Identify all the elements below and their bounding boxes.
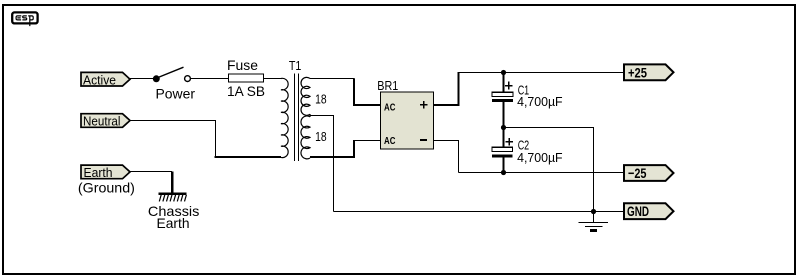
BR1 body [381,92,434,149]
wire -25 rail [459,172,625,174]
junction dot GND rail [591,209,596,214]
junction dot +25 rail / C1 [501,70,506,75]
switch throw contact [185,76,191,82]
svg-text:AC: AC [384,102,395,113]
pin + [420,101,428,109]
wire switch to fuse [191,78,228,80]
tag +25 [624,64,674,80]
wire center tap down [310,116,334,212]
svg-text:AC: AC [384,136,395,147]
fuse body [229,74,264,82]
junction dot C2 / -25 rail [501,170,506,175]
svg-text:Neutral: Neutral [83,114,121,129]
svg-text:18: 18 [315,91,327,106]
C2 top lead [503,128,505,148]
wire BR1 - output [434,141,459,173]
wire fuse to transformer primary [264,78,282,80]
svg-text:Fuse: Fuse [227,57,258,73]
transformer T1 [281,58,327,161]
tag Neutral [81,114,130,129]
C1 top lead [503,72,505,92]
tag GND [624,203,674,219]
svg-text:Active: Active [83,72,116,87]
svg-text:−25: −25 [628,165,647,181]
wire Earth to chassis [130,171,173,173]
tag Active [81,72,130,87]
tag -25 [624,165,674,181]
capacitor C1 [492,72,563,128]
wire +25 rail [458,72,625,74]
primary winding [281,78,288,157]
secondary lower winding [301,116,310,159]
svg-text:4,700µF: 4,700µF [517,150,563,165]
tag Earth [78,165,135,195]
svg-text:T1: T1 [289,58,302,73]
svg-text:BR1: BR1 [377,78,398,93]
switch lever [158,67,183,77]
bridge rectifier BR1 [377,78,433,149]
svg-text:(Ground): (Ground) [78,179,135,195]
svg-text:+25: +25 [628,64,647,80]
secondary center tap stub [309,114,311,117]
C2 positive plate [492,147,513,151]
switch SW1 Power [153,67,196,101]
secondary upper winding [301,77,310,115]
wire Active to switch [130,78,154,80]
svg-text:Earth: Earth [84,165,113,180]
capacitor C2 [492,128,563,173]
svg-text:Earth: Earth [157,215,190,231]
junction dot C1/C2 midpoint [501,125,506,130]
wire secondary top to BR1 AC1 [310,78,355,80]
C2 negative plate [492,155,513,158]
ground symbol [579,212,609,231]
svg-text:4,700µF: 4,700µF [517,94,563,109]
svg-text:18: 18 [315,129,327,144]
C1 negative plate [492,99,513,102]
fuse F1 [227,57,265,99]
ESP logo [12,12,37,26]
wire BR1 + output [434,104,459,106]
wire Neutral bottom run to primary [215,156,282,158]
core [295,74,299,162]
switch pole dot [153,75,160,82]
C2 bottom lead [503,158,505,173]
C1 positive plate [492,92,513,96]
wire GND rail [334,211,625,213]
wire Neutral horizontal and down [130,121,216,157]
svg-text:1A SB: 1A SB [227,83,265,99]
svg-text:GND: GND [627,203,649,219]
wire secondary bottom to BR1 AC2 [310,156,355,158]
svg-text:Power: Power [156,87,196,102]
C2 polarity plus [506,138,514,146]
C1 polarity plus [505,82,513,90]
chassis earth symbol [148,194,200,231]
pin - [420,139,427,141]
C1 bottom lead [503,102,505,128]
wire midpoint to ground junction [504,128,594,212]
